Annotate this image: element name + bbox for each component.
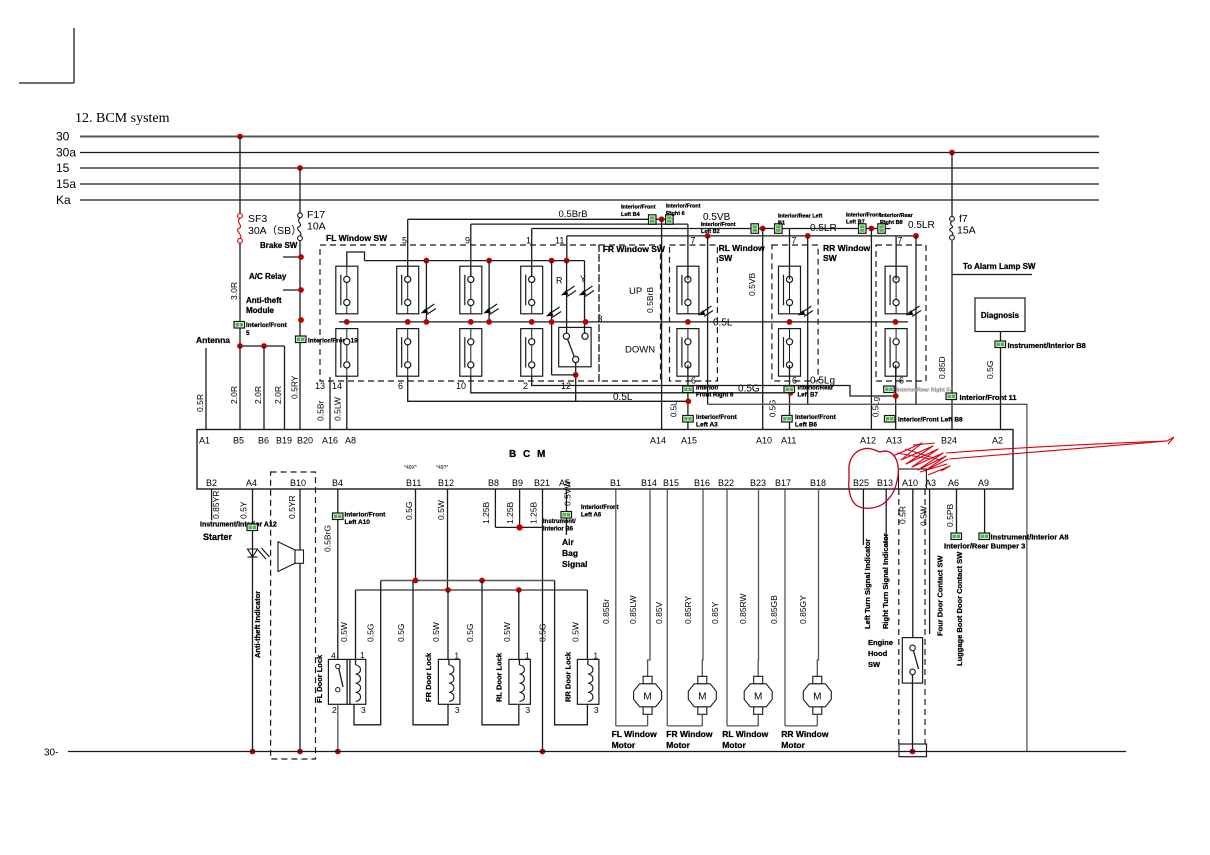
connector Instrument/Interior A12 xyxy=(247,524,258,531)
wire pin14 to BCM A8 0.5LW xyxy=(346,376,348,429)
svg-text:B16: B16 xyxy=(694,478,710,488)
junction changeover/lamp3 wrap xyxy=(573,372,579,378)
svg-text:Motor: Motor xyxy=(612,740,636,750)
junction mid bus x551.6 xyxy=(549,319,555,325)
wire 0.5G bus pin10 to RR xyxy=(471,376,791,393)
wire BCM A6 0.5PB xyxy=(956,489,958,533)
svg-text:B C M: B C M xyxy=(509,449,547,460)
wire BCM B25 left turn xyxy=(862,489,864,545)
wire FR Door Lock pin1 riser 0.5W xyxy=(447,590,449,659)
svg-text:30a: 30a xyxy=(56,146,76,160)
svg-text:Interior B6: Interior B6 xyxy=(543,527,574,533)
svg-text:B8: B8 xyxy=(488,478,499,488)
svg-text:Instrument/Interior B8: Instrument/Interior B8 xyxy=(1008,341,1086,350)
svg-text:Interior/Front: Interior/Front xyxy=(795,414,837,421)
svg-text:10A: 10A xyxy=(307,221,326,233)
svg-text:Engine: Engine xyxy=(868,638,893,647)
svg-text:Left Turn Signal Indicator: Left Turn Signal Indicator xyxy=(863,539,872,629)
changeover switch FL xyxy=(559,327,591,366)
svg-text:Instrument/Interior A8: Instrument/Interior A8 xyxy=(991,533,1069,542)
junction rail15/F17 xyxy=(297,165,303,171)
wire riser pin5 col2 xyxy=(407,219,409,279)
svg-text:3: 3 xyxy=(598,314,603,324)
svg-text:0.5VB: 0.5VB xyxy=(747,273,757,296)
power rail 30 xyxy=(80,136,1099,138)
svg-text:FL Window SW: FL Window SW xyxy=(326,233,388,243)
svg-text:0.5BrB: 0.5BrB xyxy=(559,209,588,220)
lamp RL illumination xyxy=(699,306,714,317)
motor RL Window Motor xyxy=(744,676,772,714)
FL Door Lock coil xyxy=(356,665,361,702)
wire stub to alarm lamp sw xyxy=(952,274,1032,276)
svg-text:RR Door Lock: RR Door Lock xyxy=(564,651,573,702)
lamp FL illumination 1 xyxy=(421,304,436,315)
wire BCM B8 1.25B xyxy=(494,489,496,527)
svg-text:1: 1 xyxy=(454,651,459,661)
svg-text:A9: A9 xyxy=(978,478,989,488)
svg-text:1.25B: 1.25B xyxy=(481,501,491,524)
wire top feed RR Window Motor xyxy=(817,489,818,677)
connector Instrument/Interior B8 xyxy=(995,341,1006,348)
svg-text:Module: Module xyxy=(246,306,275,315)
svg-text:B2: B2 xyxy=(206,478,217,488)
wire BCM B21 1.25B xyxy=(542,489,544,527)
junction mid bus x470.8 xyxy=(468,319,474,325)
wire changeover bottom pin12 xyxy=(575,363,577,402)
rocker switch RR xyxy=(779,266,801,376)
svg-text:F17: F17 xyxy=(307,209,325,221)
wire node bar y346 xyxy=(240,345,285,347)
junction 1.25B bar xyxy=(516,524,522,530)
svg-text:Luggage Boot Door Contact SW: Luggage Boot Door Contact SW xyxy=(955,551,964,666)
lamp 4th illumination xyxy=(907,306,922,317)
lamp FL illumination 2 xyxy=(484,304,499,315)
svg-text:0.5W: 0.5W xyxy=(339,622,349,642)
svg-text:2.0R: 2.0R xyxy=(229,386,239,404)
connector Interior/Rear Left B1 xyxy=(775,224,783,234)
svg-text:0.5G: 0.5G xyxy=(396,624,406,642)
FL Window SW dashed box xyxy=(320,245,599,381)
svg-text:B25: B25 xyxy=(853,478,869,488)
svg-text:1: 1 xyxy=(360,650,365,660)
svg-text:B19: B19 xyxy=(276,436,292,446)
Engine Hood SW box xyxy=(902,638,922,684)
wire w1 0.5BrB feed xyxy=(408,218,674,220)
svg-text:A8: A8 xyxy=(345,436,356,446)
FR Door Lock coil xyxy=(449,665,454,702)
connector Interior/Front 19 xyxy=(296,336,307,343)
wire top feed FR Window Motor xyxy=(701,489,704,677)
wire Y lamp vertical xyxy=(584,261,586,337)
wire BCM B4 0.5BrG to FL door lock xyxy=(337,489,339,659)
lamp RR illumination xyxy=(799,306,814,317)
rocker switch FL col3 xyxy=(460,266,482,376)
Engine Hood SW dashed box left xyxy=(898,489,900,744)
svg-text:0.5LW: 0.5LW xyxy=(333,397,343,421)
svg-text:B24: B24 xyxy=(941,436,957,446)
svg-text:Motor: Motor xyxy=(722,740,746,750)
RR Door Lock coil xyxy=(588,665,593,702)
wire FL lock pin2 to rail xyxy=(337,704,339,751)
svg-text:0.85RW: 0.85RW xyxy=(738,593,748,624)
connector Interior/Front Left A10 xyxy=(333,513,344,520)
red annotation arrowhead scribble xyxy=(893,443,950,475)
wire bottom feed FR Window Motor xyxy=(667,725,702,727)
wire antenna to BCM A1 0.5R xyxy=(205,348,207,430)
Anti-theft Indicator dashed box xyxy=(271,472,316,759)
svg-text:2: 2 xyxy=(523,381,528,391)
wire BCM B9 1.25B xyxy=(519,489,521,527)
svg-text:0.85V: 0.85V xyxy=(654,601,664,624)
svg-text:*49X*: *49X* xyxy=(404,465,417,471)
svg-text:4: 4 xyxy=(331,651,336,661)
wire bottom feed FL Window Motor xyxy=(616,725,648,727)
svg-text:3: 3 xyxy=(361,705,366,715)
4th Window SW dashed box xyxy=(876,245,926,381)
lamp R xyxy=(562,286,577,297)
svg-text:Left B6: Left B6 xyxy=(795,422,817,429)
svg-text:Right 6: Right 6 xyxy=(666,211,685,217)
wire FL lock pin1 riser 0.5W xyxy=(355,590,357,659)
wire riser pin11 to lamp bus xyxy=(566,236,568,261)
svg-text:0.5YR: 0.5YR xyxy=(287,495,297,519)
svg-text:0.5G: 0.5G xyxy=(985,361,995,379)
svg-text:3: 3 xyxy=(525,705,530,715)
wire lamp3 wrap to pin12 xyxy=(552,374,576,376)
junction inner bus x551.6 xyxy=(549,258,555,264)
svg-text:A14: A14 xyxy=(650,436,666,446)
junction rail30/SF3 xyxy=(237,134,243,140)
rocker switch FL col2 xyxy=(397,266,419,376)
svg-text:0.85Br: 0.85Br xyxy=(601,599,611,624)
svg-text:Interior/Rear: Interior/Rear xyxy=(880,213,914,219)
junction w4/4th lamp xyxy=(913,233,919,239)
svg-text:0.5W: 0.5W xyxy=(919,506,929,526)
svg-text:2.0R: 2.0R xyxy=(253,386,263,404)
rocker switch FL col1 xyxy=(336,266,358,376)
svg-text:Motor: Motor xyxy=(781,740,805,750)
wire pin13 to BCM A16 0.5Br xyxy=(329,377,331,430)
wire top feed RL Window Motor xyxy=(757,489,759,677)
svg-text:Left B2: Left B2 xyxy=(701,229,720,235)
motor RR Window Motor xyxy=(803,676,831,714)
wire bus B 0.5W distribution xyxy=(356,589,588,591)
svg-text:Left B7: Left B7 xyxy=(846,220,865,226)
svg-text:B21: B21 xyxy=(534,478,550,488)
wire 4th lamp vertical xyxy=(915,236,917,404)
svg-text:2.0R: 2.0R xyxy=(273,386,283,404)
svg-text:Left A6: Left A6 xyxy=(581,513,602,519)
wire RL pin6 to BCM A15 xyxy=(687,365,689,430)
svg-text:30-: 30- xyxy=(44,748,58,759)
svg-text:A2: A2 xyxy=(992,436,1003,446)
svg-text:Diagnosis: Diagnosis xyxy=(981,311,1020,320)
changeover switch blade xyxy=(568,339,575,357)
svg-text:0.5BrG: 0.5BrG xyxy=(323,525,333,552)
svg-text:Ka: Ka xyxy=(56,193,71,207)
svg-text:B12: B12 xyxy=(438,478,454,488)
svg-text:Anti-theft Indicator: Anti-theft Indicator xyxy=(253,591,262,658)
rocker switch RL xyxy=(677,266,699,376)
svg-text:SW: SW xyxy=(823,253,838,263)
wire left feed FR Window Motor xyxy=(666,489,668,726)
connector Interior/Front 5 xyxy=(234,322,245,329)
junction inner bus x426.4 xyxy=(424,258,430,264)
svg-text:0.5W: 0.5W xyxy=(431,622,441,642)
power rail 15 xyxy=(80,167,1099,169)
svg-text:A10: A10 xyxy=(756,436,772,446)
svg-text:Interior/Front: Interior/Front xyxy=(345,512,387,519)
svg-text:A12: A12 xyxy=(860,436,876,446)
svg-text:A10: A10 xyxy=(902,478,918,488)
svg-text:FL Door Lock: FL Door Lock xyxy=(315,654,324,703)
wire RL pin7 riser xyxy=(687,224,689,279)
svg-text:A4: A4 xyxy=(246,478,257,488)
junction B10 wire / rail xyxy=(297,749,303,755)
RR Window SW dashed box xyxy=(772,245,818,381)
wire to BCM B19 2.0R xyxy=(284,346,286,430)
svg-text:0.85D: 0.85D xyxy=(937,356,947,379)
wire BCM B10 speaker to rail xyxy=(299,489,301,752)
svg-text:DOWN: DOWN xyxy=(625,345,655,356)
svg-text:0.5L: 0.5L xyxy=(713,318,733,329)
svg-text:3: 3 xyxy=(594,705,599,715)
wire engine hood sw to rail xyxy=(912,675,914,752)
svg-text:RL Window: RL Window xyxy=(722,729,768,739)
svg-text:0.5W: 0.5W xyxy=(502,622,512,642)
junction inner bus x489.1 xyxy=(486,258,492,264)
svg-text:Air: Air xyxy=(562,537,575,547)
svg-text:Brake SW: Brake SW xyxy=(260,241,298,250)
Engine Hood SW blade xyxy=(914,651,919,670)
svg-text:0.5G: 0.5G xyxy=(538,624,548,642)
junction A4 wire / rail xyxy=(250,749,256,755)
svg-text:30A（SB）: 30A（SB） xyxy=(248,225,302,237)
wire lamp1 vertical xyxy=(425,261,427,322)
svg-text:0.5W: 0.5W xyxy=(436,500,446,520)
junction 1.25B / rail xyxy=(540,749,546,755)
svg-text:0.5G: 0.5G xyxy=(404,502,414,520)
svg-text:0.5L: 0.5L xyxy=(613,392,633,403)
svg-text:0.5R: 0.5R xyxy=(898,506,908,524)
svg-text:A15: A15 xyxy=(681,436,697,446)
junction RL pin1 / bus B xyxy=(516,587,522,593)
connector Interior/Front Left A3 xyxy=(683,416,694,423)
box Diagnosis xyxy=(975,298,1025,332)
wire rail30 to SF3 xyxy=(239,137,241,214)
wire left feed FL Window Motor xyxy=(615,489,617,726)
wire bottom feed RL Window Motor xyxy=(727,725,758,727)
FR Door Lock box xyxy=(438,659,460,704)
svg-text:Right B8: Right B8 xyxy=(880,220,903,226)
svg-text:7: 7 xyxy=(792,236,797,246)
svg-text:5: 5 xyxy=(402,236,407,246)
svg-text:Anti-theft: Anti-theft xyxy=(246,296,282,305)
svg-text:0.5W: 0.5W xyxy=(570,622,580,642)
svg-text:B18: B18 xyxy=(810,478,826,488)
svg-text:Interior/Front: Interior/Front xyxy=(696,414,738,421)
svg-text:Interior/Front: Interior/Front xyxy=(666,204,701,210)
svg-text:0.5VW: 0.5VW xyxy=(563,480,573,506)
svg-text:UP: UP xyxy=(629,286,642,297)
BCM module box xyxy=(197,430,1013,490)
svg-text:B15: B15 xyxy=(663,478,679,488)
wire lamp3 vertical xyxy=(551,261,553,375)
junction mid bus x346.8 xyxy=(344,319,350,325)
wire riser pin9 col3 xyxy=(470,224,472,279)
junction mid bus x789.5 xyxy=(787,319,793,325)
wire col1 top to inner bus xyxy=(347,252,365,266)
power rail 30 bottom xyxy=(68,751,1126,753)
svg-text:Front Right 6: Front Right 6 xyxy=(696,393,734,399)
svg-text:Antenna: Antenna xyxy=(196,335,230,345)
wire to BCM B6 2.0R xyxy=(263,346,265,430)
connector Interior/Front Left B7 xyxy=(859,224,867,234)
power rail 30a xyxy=(80,152,1099,154)
corner mark vertical xyxy=(73,28,75,83)
svg-text:f7: f7 xyxy=(959,213,968,225)
wire RR Door Lock pin1 riser 0.5W xyxy=(586,590,588,659)
svg-text:B1: B1 xyxy=(778,221,785,227)
wire RR pin6 to BCM A11 xyxy=(789,365,791,430)
Engine Hood SW ground block xyxy=(899,744,927,757)
wire RR Door Lock pin3 wrap 0.5G xyxy=(555,581,588,725)
wire w4 illumination feed 0.5LR xyxy=(567,235,916,237)
svg-text:6: 6 xyxy=(899,376,904,386)
svg-text:1: 1 xyxy=(593,651,598,661)
speaker anti-theft indicator xyxy=(278,542,304,572)
wire BCM A10 0.5R to engine hood sw xyxy=(912,489,914,638)
svg-text:Interior/Rear: Interior/Rear xyxy=(798,386,834,392)
box around pin A10 xyxy=(899,469,927,489)
RL Door Lock coil xyxy=(519,665,524,702)
FR Window SW dashed box xyxy=(599,245,661,381)
svg-text:SW: SW xyxy=(719,253,734,263)
svg-text:FR Window SW: FR Window SW xyxy=(603,244,666,254)
wire BCM A5 0.5VW xyxy=(565,489,567,535)
svg-text:FR Window: FR Window xyxy=(666,729,713,739)
wire RR lamp vertical xyxy=(807,236,809,404)
fuse f7 15A xyxy=(950,216,955,240)
connector Interior/Front Right 6 xyxy=(666,215,674,225)
junction B6 bar xyxy=(261,343,267,349)
wire SF3 to node xyxy=(239,243,241,346)
svg-text:12. BCM system: 12. BCM system xyxy=(75,111,170,126)
svg-text:0.5Lg: 0.5Lg xyxy=(872,397,881,417)
junction RL wrap / bus A xyxy=(479,578,485,584)
svg-text:Signal: Signal xyxy=(562,559,588,569)
connector Interior/Front Left B4 xyxy=(649,215,657,225)
wire w3 feed to RR pin7 and A12 xyxy=(532,228,891,230)
FL Door Lock box xyxy=(328,659,365,704)
svg-text:SF3: SF3 xyxy=(248,213,267,225)
wire stub A/C Relay xyxy=(283,289,301,291)
junction inner bus x566.6 xyxy=(564,258,570,264)
svg-text:B6: B6 xyxy=(258,436,269,446)
red annotation arrow tail lines xyxy=(946,437,1174,459)
svg-text:Interior/Front: Interior/Front xyxy=(621,205,656,211)
svg-text:A/C Relay: A/C Relay xyxy=(249,272,287,281)
junction w4/RR lamp xyxy=(805,233,811,239)
wire BCM A4 to rail xyxy=(252,489,254,752)
svg-text:0.5LR: 0.5LR xyxy=(908,220,935,231)
FL Door Lock divider2 xyxy=(349,659,351,704)
wire lamp return to rail 30 xyxy=(708,404,1027,751)
wire BCM A3 0.5W xyxy=(929,489,931,634)
junction B12+FR pin1 / bus B xyxy=(445,587,451,593)
svg-text:A13: A13 xyxy=(886,436,902,446)
junction 4th pin6 / 0.5Lg bus xyxy=(893,393,899,399)
svg-text:1: 1 xyxy=(526,236,531,246)
svg-text:6: 6 xyxy=(792,376,797,386)
corner mark horizontal xyxy=(19,82,74,84)
junction mid bus x895.5 xyxy=(893,319,899,325)
junction Brake SW tap xyxy=(298,254,304,260)
junction mid bus x426.4 xyxy=(424,319,430,325)
junction w3/A10 drop xyxy=(760,226,766,232)
svg-text:Interior/Front Left B8: Interior/Front Left B8 xyxy=(898,417,963,424)
wire top feed FL Window Motor xyxy=(648,489,650,677)
svg-text:3: 3 xyxy=(455,705,460,715)
svg-text:RL Door Lock: RL Door Lock xyxy=(495,652,504,702)
svg-text:9: 9 xyxy=(465,236,470,246)
wire RL lamp vertical xyxy=(707,236,709,404)
svg-text:FL Window: FL Window xyxy=(612,729,657,739)
wire 0.5Lg bus pin2 to 4th switch xyxy=(532,376,896,396)
svg-text:B22: B22 xyxy=(718,478,734,488)
connector Instrument/Interior A8 xyxy=(979,533,990,540)
junction w4/RL lamp xyxy=(705,233,711,239)
wire 1.25B to rail xyxy=(542,527,544,751)
wire to BCM B5 2.0R xyxy=(239,346,241,430)
wire bottom feed RR Window Motor xyxy=(785,725,817,727)
connector 4th pin6 gray xyxy=(884,386,895,393)
wire bus A 0.5G distribution xyxy=(381,580,555,582)
junction A/C Relay tap xyxy=(298,287,304,293)
svg-text:Motor: Motor xyxy=(666,740,690,750)
wire FR Door Lock pin3 wrap 0.5G xyxy=(413,581,448,725)
svg-text:B20: B20 xyxy=(297,436,313,446)
svg-text:6: 6 xyxy=(398,381,403,391)
wire RL Door Lock pin1 riser 0.5W xyxy=(518,590,520,659)
wire w2 feed to RL pin7 xyxy=(471,223,688,225)
svg-text:Interior/Front: Interior/Front xyxy=(846,213,881,219)
svg-text:SW: SW xyxy=(868,660,881,669)
wire f7 to BCM B24 0.85D xyxy=(951,240,953,429)
svg-text:RR Window: RR Window xyxy=(781,729,829,739)
svg-text:30: 30 xyxy=(56,130,70,144)
wire BCM B12 0.5W xyxy=(447,489,449,590)
junction RR pin6 / 0.5G bus xyxy=(788,390,794,396)
indicator LED starter xyxy=(248,548,270,559)
svg-text:7: 7 xyxy=(898,236,903,246)
svg-text:6: 6 xyxy=(691,376,696,386)
junction w1/A14 drop xyxy=(659,216,665,222)
connector Interior/Rear Left B7 xyxy=(784,386,795,393)
svg-text:0.85GB: 0.85GB xyxy=(769,595,779,624)
FL Door Lock divider xyxy=(346,659,348,704)
svg-text:13: 13 xyxy=(315,381,325,391)
svg-text:0.5LR: 0.5LR xyxy=(810,223,837,234)
svg-text:Instrument/: Instrument/ xyxy=(543,519,576,525)
svg-text:M: M xyxy=(813,691,821,702)
svg-text:0.5Br: 0.5Br xyxy=(316,401,326,421)
svg-text:Hood: Hood xyxy=(868,649,888,658)
connector Interior/Front 11 xyxy=(946,393,957,400)
svg-text:Left A3: Left A3 xyxy=(696,422,718,429)
svg-text:14: 14 xyxy=(332,381,342,391)
red annotation scribble circle around B25 B13 xyxy=(849,448,899,508)
